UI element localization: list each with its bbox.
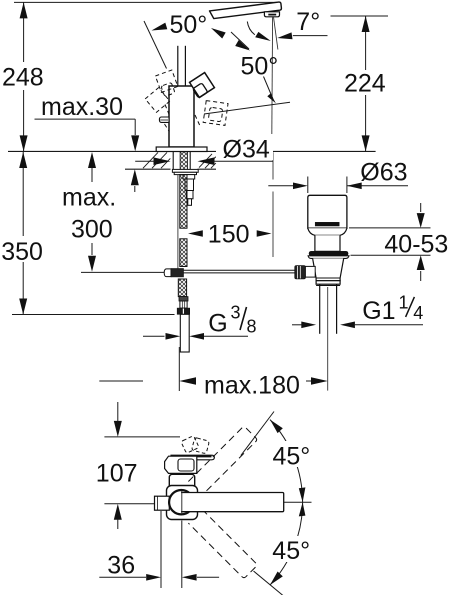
svg-text:G1: G1 [362, 297, 395, 325]
svg-text:Ø34: Ø34 [223, 136, 270, 164]
svg-text:7°: 7° [296, 8, 320, 36]
svg-text:4: 4 [413, 303, 423, 323]
svg-text:36: 36 [107, 551, 135, 579]
svg-text:max.180: max.180 [204, 372, 300, 400]
svg-text:107: 107 [96, 460, 138, 488]
svg-text:248: 248 [2, 64, 44, 92]
svg-text:45°: 45° [273, 442, 311, 470]
svg-text:300: 300 [71, 215, 113, 243]
svg-text:350: 350 [1, 238, 43, 266]
svg-text:1: 1 [399, 293, 409, 313]
svg-text:45°: 45° [272, 537, 310, 565]
svg-text:3: 3 [231, 303, 241, 323]
svg-text:G: G [208, 310, 227, 338]
svg-text:150: 150 [208, 220, 250, 248]
svg-text:max.30: max.30 [41, 93, 123, 121]
svg-text:max.: max. [62, 184, 116, 212]
svg-text:40-53: 40-53 [384, 231, 448, 259]
svg-text:224: 224 [344, 70, 386, 98]
svg-text:Ø63: Ø63 [360, 159, 407, 187]
svg-text:8: 8 [247, 317, 257, 337]
svg-text:50°: 50° [170, 11, 208, 39]
svg-text:50°: 50° [241, 52, 279, 80]
